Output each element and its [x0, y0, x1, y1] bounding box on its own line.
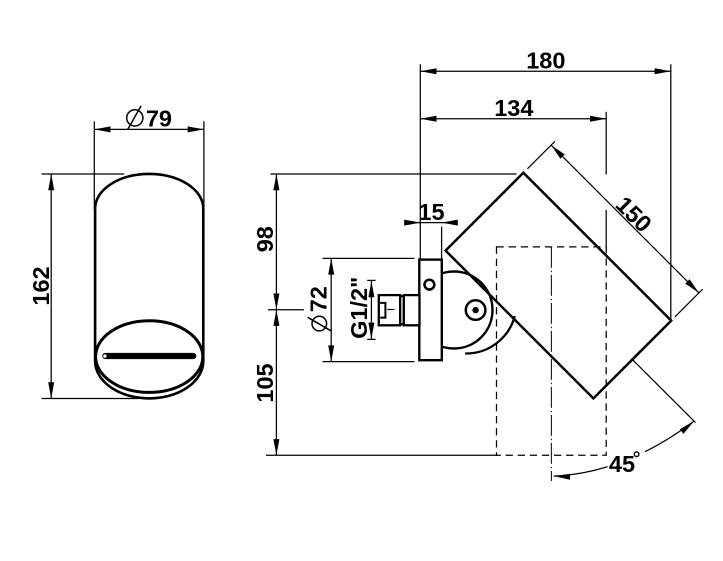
svg-text:134: 134 [494, 95, 533, 121]
dimension 45 degrees [554, 360, 696, 480]
dimension 15 [404, 199, 458, 259]
plate screw hole [425, 280, 435, 290]
dimension 180 [420, 47, 671, 320]
svg-text:162: 162 [28, 266, 54, 305]
svg-text:G1/2": G1/2" [346, 277, 372, 339]
dimension 134 [420, 95, 606, 247]
thread callout G1/2 [346, 277, 376, 340]
ball joint socket arc [465, 316, 515, 353]
shower head rotated 45 [446, 173, 672, 399]
svg-text:105: 105 [252, 363, 278, 402]
pivot screw [466, 300, 486, 320]
thread relief groove [400, 296, 404, 324]
dimension 105 [252, 310, 497, 456]
shower head vertical position dashed [497, 247, 607, 455]
wall mounting plate [419, 260, 442, 361]
ball joint sphere [416, 272, 493, 349]
dimension O72 [306, 258, 415, 361]
svg-text:79: 79 [146, 106, 172, 132]
cylinder body front view [95, 174, 203, 399]
dimension 150 [527, 141, 702, 317]
svg-text:45: 45 [609, 451, 635, 477]
water outlet slot [103, 354, 193, 357]
inlet connector cap [379, 295, 400, 325]
threaded nipple G1/2 [404, 295, 420, 325]
svg-text:15: 15 [418, 199, 444, 225]
svg-text:180: 180 [526, 47, 565, 73]
svg-text:98: 98 [252, 226, 278, 252]
dimension 98 [252, 174, 516, 455]
vertical centerline [550, 247, 552, 481]
cylinder face rim ellipse [96, 321, 203, 393]
dimension O79 [94, 106, 204, 210]
svg-text:72: 72 [306, 286, 332, 312]
dimension 162 [28, 174, 139, 399]
